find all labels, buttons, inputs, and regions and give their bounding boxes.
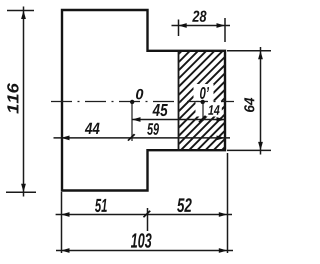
dimension 116: dimension line <box>23 7 25 197</box>
arrow 52 right <box>219 212 228 217</box>
label 45 <box>152 104 167 116</box>
arrow 64 bottom <box>258 142 263 151</box>
dimension line 44 / 59 <box>54 137 231 139</box>
dimension line 45 / 14 <box>132 119 226 121</box>
label 116 (rotated) <box>7 83 18 114</box>
label 52 <box>177 198 192 212</box>
dimension line 51 / 52 <box>56 214 232 216</box>
arrows at O' (45 right / 14 left) <box>198 115 206 123</box>
arrow right of 59 <box>217 136 226 141</box>
arrow 116 top <box>21 11 26 20</box>
arrow 103 right <box>219 248 228 253</box>
centerline through O and O' <box>51 101 234 103</box>
label 64 (rotated) <box>244 98 254 112</box>
dimension 116: top extension line <box>7 10 34 12</box>
extension line down from O' <box>202 102 204 121</box>
arrow left of 44 <box>61 136 70 141</box>
dimension 64: top extension line <box>227 50 271 52</box>
arrow left of 45 <box>132 117 141 122</box>
dimension 28: right extension line <box>224 18 226 42</box>
outline: cross-section body <box>62 10 225 191</box>
dimension 64: dimension line <box>260 47 262 155</box>
dimension 64: bottom extension line <box>227 149 271 151</box>
extension line down from O <box>131 102 133 141</box>
arrow 51 left <box>61 212 70 217</box>
point O' <box>201 100 205 104</box>
hatching <box>82 50 320 151</box>
label 59 <box>147 123 159 135</box>
arrows at middle tick <box>143 210 151 218</box>
arrow right of 14 <box>217 117 226 122</box>
bottom left extension line <box>61 192 63 253</box>
dimension 28: dimension line <box>172 25 231 27</box>
label O' <box>200 87 209 99</box>
arrow 116 bottom <box>21 184 26 193</box>
label O <box>136 89 143 100</box>
arrow 103 left <box>61 248 70 253</box>
bottom right extension line <box>227 153 229 253</box>
bottom middle tick 51/52 <box>147 208 149 231</box>
label 14 <box>208 105 219 115</box>
arrow 28 right <box>217 23 226 28</box>
arrow 28 left <box>178 23 187 28</box>
hatch area left boundary <box>178 50 180 151</box>
label 28 <box>192 11 206 22</box>
point O <box>130 100 134 104</box>
arrows at O vertical (44 right / 59 left) <box>127 134 135 142</box>
white halo in hatch around label 14 <box>196 101 222 117</box>
label 103 <box>131 233 152 248</box>
dimension 28: left extension line <box>178 20 180 37</box>
arrow 64 top <box>258 51 263 60</box>
dimension 116: bottom extension line <box>6 191 36 193</box>
dimension line 103 <box>56 250 233 252</box>
white halo in hatch around label O' <box>194 84 214 101</box>
label 51 <box>95 199 107 212</box>
label 44 <box>85 123 100 134</box>
